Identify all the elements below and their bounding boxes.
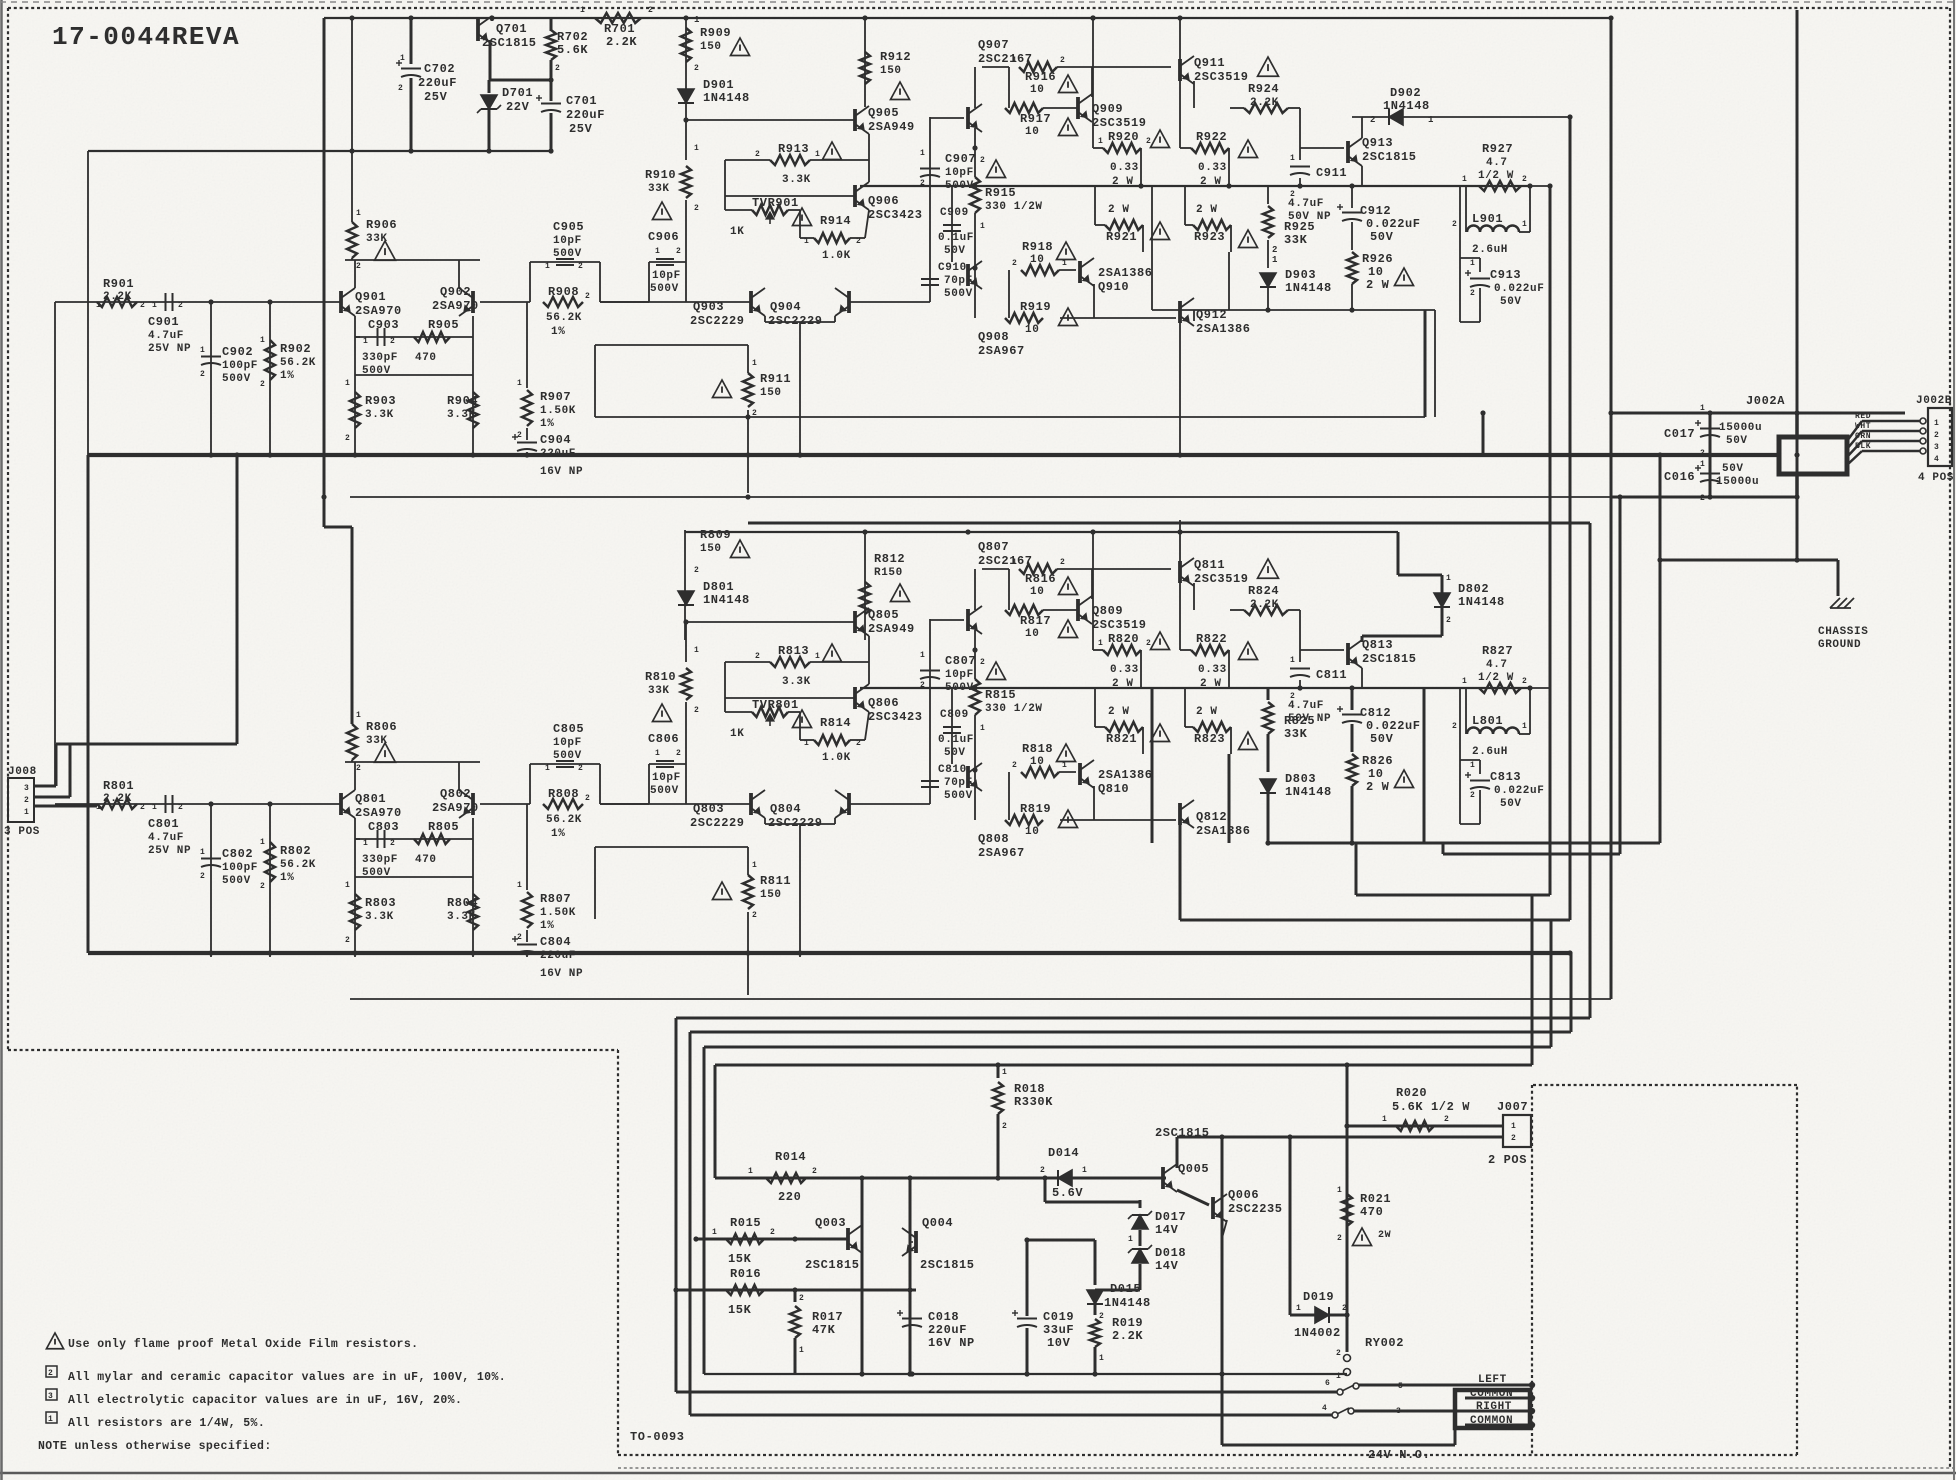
svg-text:Q809: Q809 [1092,604,1123,618]
svg-text:Q805: Q805 [868,608,899,622]
svg-text:2: 2 [980,156,985,165]
svg-text:All mylar and ceramic capacito: All mylar and ceramic capacitor values a… [68,1371,506,1384]
svg-text:R804: R804 [447,896,478,910]
svg-text:2 W: 2 W [1108,204,1130,216]
svg-text:R921: R921 [1106,230,1137,244]
svg-text:Q903: Q903 [693,300,724,314]
svg-text:1: 1 [694,15,700,25]
svg-text:Q006: Q006 [1228,1188,1259,1202]
svg-text:50V: 50V [1722,463,1744,475]
svg-text:5.6K 1/2 W: 5.6K 1/2 W [1392,1100,1470,1114]
svg-text:15000u: 15000u [1716,476,1759,488]
svg-text:1K: 1K [730,728,744,740]
svg-text:2: 2 [178,301,183,310]
svg-text:Q804: Q804 [770,802,801,816]
svg-text:2: 2 [694,566,699,575]
svg-text:2: 2 [585,794,590,803]
svg-text:2.2K: 2.2K [606,35,637,49]
svg-text:16V NP: 16V NP [540,466,583,478]
svg-text:1: 1 [1470,259,1475,268]
svg-text:1.50K: 1.50K [540,907,576,919]
svg-text:Q908: Q908 [978,330,1009,344]
svg-text:2: 2 [812,1167,817,1176]
svg-text:10: 10 [1030,254,1044,266]
svg-text:3.3K: 3.3K [447,911,476,923]
svg-text:2: 2 [755,150,760,159]
svg-text:2: 2 [1522,677,1527,686]
svg-text:Q807: Q807 [978,540,1009,554]
svg-text:C810: C810 [938,764,967,776]
svg-text:D019: D019 [1303,1290,1334,1304]
svg-text:470: 470 [415,352,437,364]
svg-text:2SC1815: 2SC1815 [1362,652,1417,666]
svg-text:R802: R802 [280,844,311,858]
svg-text:1: 1 [1462,175,1467,184]
svg-text:R904: R904 [447,394,478,408]
svg-text:C905: C905 [553,220,584,234]
svg-text:1N4148: 1N4148 [703,593,750,607]
svg-text:R814: R814 [820,716,851,730]
svg-text:2.2K: 2.2K [1250,97,1279,109]
svg-text:R020: R020 [1396,1086,1427,1100]
svg-text:1: 1 [363,337,368,346]
svg-text:R815: R815 [985,688,1016,702]
svg-text:1: 1 [799,1346,804,1355]
svg-text:2: 2 [1012,259,1017,268]
svg-text:1: 1 [580,6,585,15]
svg-text:2: 2 [1444,1115,1449,1124]
svg-text:2: 2 [1336,1349,1341,1358]
svg-text:R812: R812 [874,552,905,566]
svg-text:2 W: 2 W [1108,706,1130,718]
svg-text:2: 2 [770,1228,775,1237]
svg-text:RY002: RY002 [1365,1336,1404,1350]
svg-text:17-0044REVA: 17-0044REVA [52,22,240,52]
svg-text:150: 150 [700,543,722,555]
svg-text:R811: R811 [760,874,791,888]
svg-text:C804: C804 [540,935,571,949]
svg-text:1N4148: 1N4148 [1104,1296,1151,1310]
svg-text:CHASSIS: CHASSIS [1818,626,1868,638]
svg-text:33K: 33K [1284,233,1308,247]
svg-text:2: 2 [755,652,760,661]
svg-text:R914: R914 [820,214,851,228]
svg-text:Q902: Q902 [440,285,471,299]
svg-text:2W: 2W [1378,1230,1391,1241]
svg-text:1: 1 [980,724,985,733]
svg-text:2: 2 [694,204,699,213]
svg-text:R822: R822 [1196,632,1227,646]
svg-text:Q904: Q904 [770,300,801,314]
svg-text:500V: 500V [650,283,679,295]
svg-text:C701: C701 [566,94,597,108]
svg-text:2: 2 [1700,449,1705,458]
svg-text:D903: D903 [1285,268,1316,282]
svg-text:500V: 500V [222,373,251,385]
svg-text:R909: R909 [700,26,731,40]
svg-text:50V: 50V [1370,732,1394,746]
svg-text:2: 2 [980,658,985,667]
svg-text:2: 2 [200,370,205,379]
svg-text:2SC3519: 2SC3519 [1092,618,1147,632]
svg-text:2: 2 [694,706,699,715]
svg-text:2 POS: 2 POS [1488,1153,1527,1167]
svg-text:500V: 500V [944,288,973,300]
svg-text:50V: 50V [1370,230,1394,244]
svg-text:2SC3519: 2SC3519 [1092,116,1147,130]
svg-text:2SC2235: 2SC2235 [1228,1202,1283,1216]
svg-text:Q803: Q803 [693,802,724,816]
svg-text:10: 10 [1368,265,1384,279]
svg-text:TVR801: TVR801 [752,698,799,712]
svg-text:1: 1 [1934,419,1939,428]
svg-text:1: 1 [752,861,757,870]
svg-text:1: 1 [1522,722,1527,731]
svg-text:1: 1 [1511,1122,1516,1131]
svg-text:R818: R818 [1022,742,1053,756]
svg-text:R920: R920 [1108,130,1139,144]
svg-text:Q806: Q806 [868,696,899,710]
svg-text:500V: 500V [553,248,582,260]
svg-text:1: 1 [96,301,101,310]
svg-text:R919: R919 [1020,300,1051,314]
svg-text:2: 2 [856,739,861,748]
svg-text:2: 2 [676,749,681,758]
svg-text:2.6uH: 2.6uH [1472,746,1508,758]
svg-text:C911: C911 [1316,166,1347,180]
svg-text:1: 1 [1098,137,1103,146]
svg-text:C018: C018 [928,1310,959,1324]
svg-text:10: 10 [1030,586,1044,598]
svg-text:3 POS: 3 POS [4,826,40,838]
svg-text:4.7uF: 4.7uF [1288,198,1324,210]
svg-text:1: 1 [694,144,699,153]
svg-text:C803: C803 [368,820,399,834]
svg-text:2: 2 [178,803,183,812]
svg-text:2: 2 [48,1369,53,1378]
svg-text:R924: R924 [1248,82,1279,96]
svg-text:R819: R819 [1020,802,1051,816]
svg-text:3: 3 [1934,443,1939,452]
svg-text:1: 1 [260,838,265,847]
svg-text:2SC3519: 2SC3519 [1194,572,1249,586]
svg-text:1: 1 [1296,1304,1301,1313]
svg-text:Q905: Q905 [868,106,899,120]
svg-text:Q005: Q005 [1178,1162,1209,1176]
svg-text:10pF: 10pF [945,167,974,179]
svg-text:2: 2 [1470,289,1475,298]
svg-text:10: 10 [1030,756,1044,768]
svg-text:C805: C805 [553,722,584,736]
svg-text:2SC2229: 2SC2229 [690,816,745,830]
svg-text:2.2K: 2.2K [103,291,132,303]
svg-text:2SA1386: 2SA1386 [1196,322,1251,336]
svg-text:C906: C906 [648,230,679,244]
svg-text:50V: 50V [944,245,966,257]
svg-text:R826: R826 [1362,754,1393,768]
svg-text:C016: C016 [1664,470,1695,484]
svg-text:500V: 500V [944,790,973,802]
svg-text:2SC3519: 2SC3519 [1194,70,1249,84]
svg-text:R907: R907 [540,390,571,404]
svg-text:2SC1815: 2SC1815 [805,1258,860,1272]
svg-text:R150: R150 [874,567,903,579]
svg-text:2SA970: 2SA970 [432,801,479,815]
svg-text:1: 1 [1336,1372,1341,1381]
svg-text:Q801: Q801 [355,792,386,806]
svg-text:3.3K: 3.3K [365,409,394,421]
svg-text:C702: C702 [424,62,455,76]
svg-text:C901: C901 [148,315,179,329]
svg-text:2.6uH: 2.6uH [1472,244,1508,256]
svg-text:R922: R922 [1196,130,1227,144]
svg-text:1: 1 [1522,220,1527,229]
svg-text:R821: R821 [1106,732,1137,746]
svg-text:2: 2 [1099,1312,1104,1321]
svg-text:1: 1 [356,711,361,720]
svg-text:0.33: 0.33 [1110,162,1139,174]
svg-text:14V: 14V [1155,1259,1179,1273]
svg-text:1: 1 [1012,56,1017,65]
svg-text:1: 1 [260,336,265,345]
svg-text:3: 3 [48,1392,53,1401]
svg-text:2: 2 [648,6,653,15]
svg-text:2: 2 [260,380,265,389]
svg-text:GRN: GRN [1855,432,1871,441]
svg-text:500V: 500V [222,875,251,887]
svg-text:R917: R917 [1020,112,1051,126]
svg-text:1.0K: 1.0K [822,250,851,262]
svg-text:1: 1 [152,803,157,812]
svg-text:D014: D014 [1048,1146,1079,1160]
svg-text:470: 470 [415,854,437,866]
svg-text:Q808: Q808 [978,832,1009,846]
svg-text:10: 10 [1025,826,1039,838]
svg-text:R902: R902 [280,342,311,356]
svg-text:D901: D901 [703,78,734,92]
svg-text:R021: R021 [1360,1192,1391,1206]
svg-text:3: 3 [24,784,29,793]
svg-text:1N4148: 1N4148 [1285,785,1332,799]
svg-text:10pF: 10pF [553,235,582,247]
svg-text:4: 4 [1934,455,1939,464]
svg-text:1: 1 [815,150,820,159]
svg-text:2 W: 2 W [1366,780,1390,794]
svg-text:2SA970: 2SA970 [355,806,402,820]
svg-text:2: 2 [585,292,590,301]
svg-text:D701: D701 [502,86,533,100]
svg-text:R702: R702 [557,30,588,44]
svg-text:2: 2 [390,839,395,848]
svg-text:500V: 500V [650,785,679,797]
svg-text:330pF: 330pF [362,854,398,866]
svg-text:6: 6 [1325,1379,1330,1388]
svg-text:C802: C802 [222,847,253,861]
svg-text:2.2K: 2.2K [1250,599,1279,611]
svg-text:1%: 1% [540,920,554,932]
svg-text:100pF: 100pF [222,360,258,372]
svg-text:C801: C801 [148,817,179,831]
svg-text:330 1/2W: 330 1/2W [985,201,1043,213]
svg-text:150: 150 [760,889,782,901]
svg-text:1: 1 [748,1167,753,1176]
svg-text:R823: R823 [1194,732,1225,746]
svg-text:100pF: 100pF [222,862,258,874]
svg-text:2SC2229: 2SC2229 [768,816,823,830]
svg-text:4.7uF: 4.7uF [1288,700,1324,712]
svg-text:1: 1 [1700,460,1705,469]
svg-text:1: 1 [200,848,205,857]
svg-text:Q701: Q701 [496,22,527,36]
svg-text:R918: R918 [1022,240,1053,254]
svg-text:C806: C806 [648,732,679,746]
svg-text:Q802: Q802 [440,787,471,801]
svg-text:220uF: 220uF [540,950,576,962]
svg-text:5.6K: 5.6K [557,43,588,57]
svg-text:2: 2 [1146,137,1151,146]
svg-text:50V: 50V [1500,296,1522,308]
svg-text:10V: 10V [1047,1336,1071,1350]
svg-text:220uF: 220uF [418,76,457,90]
svg-text:1: 1 [920,149,925,158]
svg-text:2: 2 [1370,115,1376,125]
svg-text:56.2K: 56.2K [546,312,582,324]
svg-text:10pF: 10pF [652,772,681,784]
svg-text:1: 1 [48,1415,53,1424]
svg-text:1: 1 [1099,1354,1104,1363]
svg-text:2: 2 [676,247,681,256]
svg-text:2.2K: 2.2K [103,793,132,805]
svg-text:25V: 25V [424,90,448,104]
svg-text:R912: R912 [880,50,911,64]
svg-text:C910: C910 [938,262,967,274]
svg-text:1N4148: 1N4148 [703,91,750,105]
svg-text:2: 2 [1452,722,1457,731]
svg-text:2SC1815: 2SC1815 [920,1258,975,1272]
svg-text:2: 2 [1452,220,1457,229]
svg-text:L801: L801 [1472,714,1503,728]
svg-text:2SA967: 2SA967 [978,344,1025,358]
svg-text:R019: R019 [1112,1316,1143,1330]
svg-text:150: 150 [700,41,722,53]
svg-text:330 1/2W: 330 1/2W [985,703,1043,715]
svg-text:1N4002: 1N4002 [1294,1326,1341,1340]
svg-text:C912: C912 [1360,204,1391,218]
svg-text:4.7uF: 4.7uF [148,330,184,342]
svg-text:4: 4 [1322,1404,1327,1413]
svg-text:2SC2167: 2SC2167 [978,52,1033,66]
svg-text:2: 2 [140,301,145,310]
svg-text:R923: R923 [1194,230,1225,244]
svg-text:C019: C019 [1043,1310,1074,1324]
svg-text:1: 1 [1446,574,1451,583]
svg-text:2: 2 [1012,761,1017,770]
svg-text:5.6V: 5.6V [1052,1186,1083,1200]
svg-text:56.2K: 56.2K [546,814,582,826]
svg-text:220uF: 220uF [540,448,576,460]
svg-text:16V NP: 16V NP [540,968,583,980]
svg-text:3.3K: 3.3K [782,174,811,186]
svg-text:Q810: Q810 [1098,782,1129,796]
svg-text:1: 1 [1382,1115,1387,1124]
svg-text:Q003: Q003 [815,1216,846,1230]
svg-text:1: 1 [152,301,157,310]
svg-text:J008: J008 [8,766,37,778]
svg-text:R018: R018 [1014,1082,1045,1096]
svg-text:2: 2 [1446,616,1451,625]
svg-text:10pF: 10pF [945,669,974,681]
svg-text:Q004: Q004 [922,1216,953,1230]
svg-text:1: 1 [804,237,809,246]
svg-text:R915: R915 [985,186,1016,200]
svg-text:50V: 50V [1726,435,1748,447]
svg-text:C904: C904 [540,433,571,447]
svg-text:1: 1 [1290,656,1295,665]
svg-text:1N4148: 1N4148 [1285,281,1332,295]
svg-text:R808: R808 [548,787,579,801]
svg-text:2SC2167: 2SC2167 [978,554,1033,568]
svg-text:1%: 1% [551,828,565,840]
svg-text:10: 10 [1368,767,1384,781]
svg-text:1: 1 [345,881,350,890]
svg-text:2: 2 [1060,558,1065,567]
svg-text:1: 1 [1700,404,1705,413]
svg-text:D902: D902 [1390,86,1421,100]
svg-text:2SA1386: 2SA1386 [1098,768,1153,782]
svg-text:1: 1 [655,247,660,256]
svg-text:2: 2 [1060,56,1065,65]
svg-text:50V: 50V [1500,798,1522,810]
svg-text:1: 1 [1002,1068,1007,1077]
svg-text:10: 10 [1030,84,1044,96]
svg-text:0.33: 0.33 [1198,664,1227,676]
svg-text:2SC2229: 2SC2229 [690,314,745,328]
svg-text:2: 2 [752,911,757,920]
svg-text:C017: C017 [1664,427,1695,441]
svg-text:33K: 33K [648,183,670,195]
svg-text:4.7: 4.7 [1486,659,1508,671]
svg-text:0.33: 0.33 [1110,664,1139,676]
svg-text:D802: D802 [1458,582,1489,596]
svg-text:R014: R014 [775,1150,806,1164]
svg-text:2: 2 [578,764,583,773]
svg-text:2SC3423: 2SC3423 [868,710,923,724]
svg-text:2: 2 [517,933,522,942]
svg-text:2: 2 [1511,1134,1516,1143]
svg-text:2: 2 [1040,1166,1045,1175]
svg-text:15K: 15K [728,1252,752,1266]
svg-text:R801: R801 [103,779,134,793]
svg-text:2 W: 2 W [1196,204,1218,216]
svg-text:50V NP: 50V NP [1288,713,1331,725]
svg-text:2: 2 [1272,245,1278,255]
svg-text:150: 150 [760,387,782,399]
svg-text:2SC2229: 2SC2229 [768,314,823,328]
svg-text:2SA949: 2SA949 [868,622,915,636]
svg-text:Q910: Q910 [1098,280,1129,294]
svg-text:2: 2 [260,882,265,891]
svg-text:24V N.O.: 24V N.O. [1368,1448,1430,1462]
svg-text:330pF: 330pF [362,352,398,364]
svg-text:2 W: 2 W [1196,706,1218,718]
svg-text:4.7uF: 4.7uF [148,832,184,844]
svg-text:1: 1 [545,764,550,773]
svg-text:2: 2 [345,434,350,443]
svg-text:1.50K: 1.50K [540,405,576,417]
svg-text:1: 1 [345,379,350,388]
svg-text:1: 1 [517,379,522,388]
svg-text:15000u: 15000u [1719,422,1762,434]
